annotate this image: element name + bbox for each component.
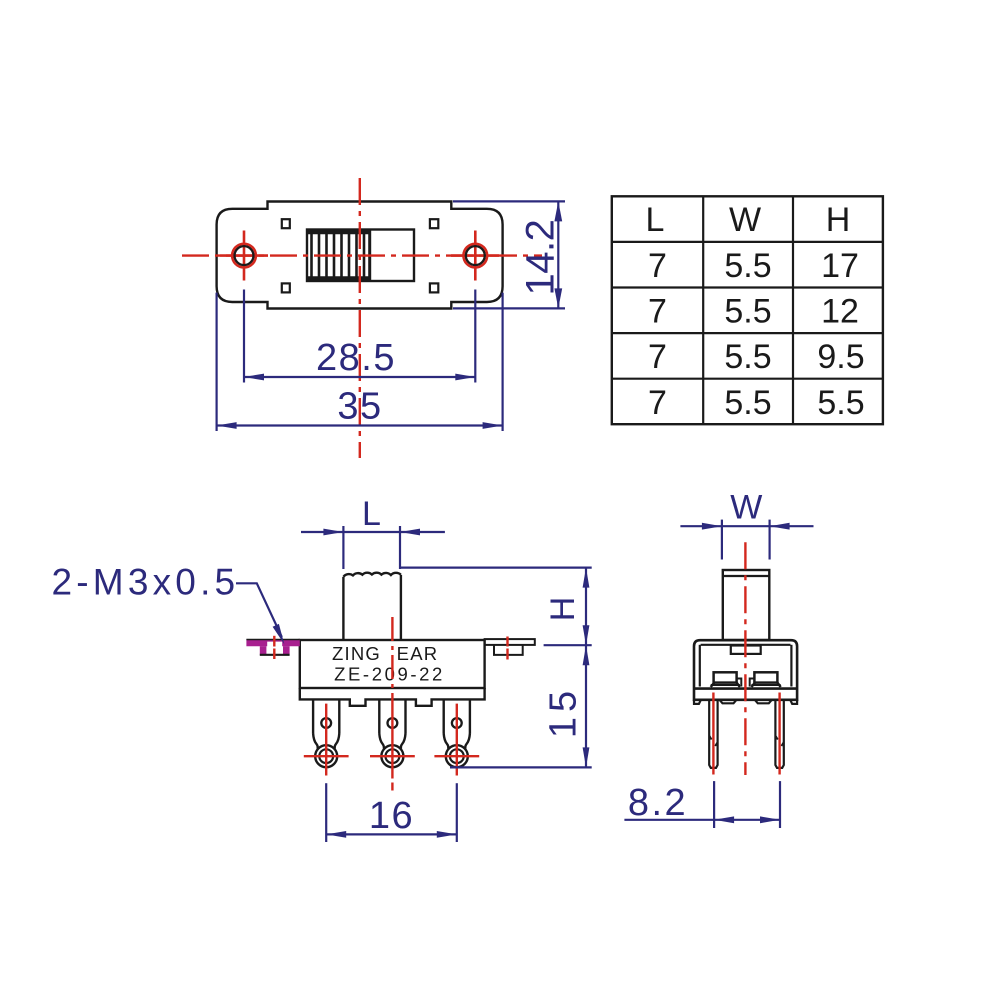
dim 15 extension bottom — [450, 766, 592, 768]
dim 16 line — [326, 833, 457, 835]
red line in right pin — [778, 693, 780, 775]
slider knob right edge — [368, 230, 371, 282]
dim 16 extension lines — [325, 783, 327, 842]
svg-text:9.5: 9.5 — [817, 338, 864, 376]
table outer frame — [612, 196, 883, 424]
actuator knob left edge — [342, 577, 344, 639]
center small rectangle detent — [731, 646, 761, 654]
dim H/15 extension middle — [544, 644, 592, 646]
svg-text:8.2: 8.2 — [628, 782, 688, 824]
table column divider 1 — [702, 196, 704, 424]
left ear screw notch bottom line — [260, 654, 290, 656]
svg-text:5.5: 5.5 — [724, 247, 771, 285]
table row divider 4 — [612, 378, 883, 380]
svg-text:H: H — [544, 597, 582, 622]
svg-text:5.5: 5.5 — [817, 384, 864, 422]
right mounting ear outline — [485, 639, 535, 645]
dimension line 14.2 — [557, 201, 559, 308]
svg-text:L: L — [362, 495, 381, 533]
dim W line with outside arrows — [680, 525, 813, 527]
top view body outline plate — [217, 202, 503, 309]
red center line pin 3 — [456, 704, 458, 776]
slider knob knurl ridges — [312, 230, 365, 282]
svg-text:14.2: 14.2 — [519, 220, 563, 296]
small square hole top-right — [430, 219, 438, 228]
side body inner left wall — [699, 645, 701, 687]
right ear red center line — [506, 637, 508, 647]
slider knob thick bottom bar — [307, 276, 370, 281]
side body flange top line — [694, 687, 797, 690]
small square hole bottom-left — [282, 283, 290, 292]
table row divider 3 — [612, 332, 883, 334]
svg-text:ZE-209-22: ZE-209-22 — [334, 663, 445, 684]
switch body rectangle — [300, 640, 485, 688]
side pin left — [709, 700, 717, 768]
dim H vertical line — [585, 568, 587, 646]
red line in left pin — [712, 693, 714, 775]
extension line body left down — [216, 293, 218, 431]
left hole red circle — [232, 244, 256, 268]
svg-text:35: 35 — [337, 386, 382, 428]
dim W extension lines — [721, 520, 723, 560]
terminal pin 1 — [313, 699, 339, 767]
actuator knob right edge — [400, 575, 402, 639]
svg-text:2-M3x0.5: 2-M3x0.5 — [52, 562, 240, 603]
svg-text:W: W — [730, 489, 762, 527]
svg-text:EAR: EAR — [397, 643, 439, 664]
right internal terminal — [750, 672, 781, 687]
svg-text:12: 12 — [821, 293, 859, 331]
left hole black circle — [235, 246, 254, 265]
left ear red center line — [273, 636, 275, 647]
table row divider 2 — [612, 286, 883, 288]
table row divider 1 — [612, 241, 883, 243]
red center line pin 2 / view center — [391, 617, 393, 702]
side knob rectangle — [723, 570, 770, 640]
svg-text:7: 7 — [648, 338, 667, 376]
small square hole top-left — [282, 219, 290, 228]
terminal pin 3 — [444, 699, 470, 767]
actuator knob wavy top — [343, 573, 401, 577]
solid center segment at right hole — [451, 254, 499, 257]
right hole red circle — [463, 244, 487, 268]
solid center segment at left hole — [220, 254, 268, 257]
extension line 14.2 bottom — [453, 307, 565, 309]
side body inner top line — [701, 644, 791, 646]
side knob top cap line — [723, 575, 770, 577]
svg-text:W: W — [729, 201, 761, 239]
svg-text:7: 7 — [648, 247, 667, 285]
dim 8.2 extension lines — [713, 781, 715, 828]
side view center line dash-dot — [744, 542, 746, 775]
bottom flange with crimp bumps — [300, 688, 485, 706]
table column divider 2 — [792, 196, 794, 424]
svg-text:5.5: 5.5 — [724, 293, 771, 331]
side pin right — [775, 700, 783, 768]
dim 15 vertical line — [585, 645, 587, 767]
svg-text:7: 7 — [648, 293, 667, 331]
left hole crosshair vertical — [243, 231, 246, 281]
under flange bump right — [755, 700, 772, 704]
svg-text:L: L — [646, 201, 665, 239]
slider knob thick top bar — [307, 229, 370, 234]
terminal pin 2 — [379, 699, 405, 767]
right hole crosshair vertical — [474, 231, 477, 281]
table header text — [646, 201, 865, 422]
svg-text:ZING: ZING — [332, 643, 381, 664]
extension line 14.2 top — [453, 200, 565, 202]
vertical center line dash-dot — [359, 178, 361, 458]
left ear black top edge — [246, 639, 299, 641]
left mounting ear magenta — [246, 639, 299, 646]
small square hole bottom-right — [430, 283, 438, 292]
slider track rectangle — [307, 230, 414, 282]
under flange bump left — [720, 700, 737, 704]
svg-text:15: 15 — [543, 686, 585, 738]
svg-text:7: 7 — [648, 384, 667, 422]
horizontal center line dash-dot — [182, 254, 542, 256]
dim L line with outside arrows — [301, 531, 445, 533]
svg-text:16: 16 — [369, 795, 414, 837]
extension line left hole down — [243, 290, 245, 383]
dimension line 28.5 — [244, 376, 475, 378]
right hole black circle — [466, 246, 485, 265]
svg-text:H: H — [826, 201, 851, 239]
dim H extension top — [400, 566, 592, 568]
svg-text:5.5: 5.5 — [724, 384, 771, 422]
left bottom foot — [694, 700, 701, 704]
svg-text:28.5: 28.5 — [316, 337, 396, 379]
right bottom foot — [790, 700, 797, 704]
red center line pin 1 — [325, 704, 327, 776]
dim 8.2 line — [624, 819, 780, 821]
left internal terminal — [711, 672, 742, 687]
dim L extension lines — [342, 526, 344, 569]
side body inner right wall — [790, 645, 792, 687]
extension line body right down — [502, 293, 504, 431]
side body outline — [694, 640, 797, 700]
svg-text:5.5: 5.5 — [724, 338, 771, 376]
dimension line 35 — [217, 424, 503, 426]
extension line right hole down — [474, 290, 476, 383]
svg-text:17: 17 — [821, 247, 859, 285]
